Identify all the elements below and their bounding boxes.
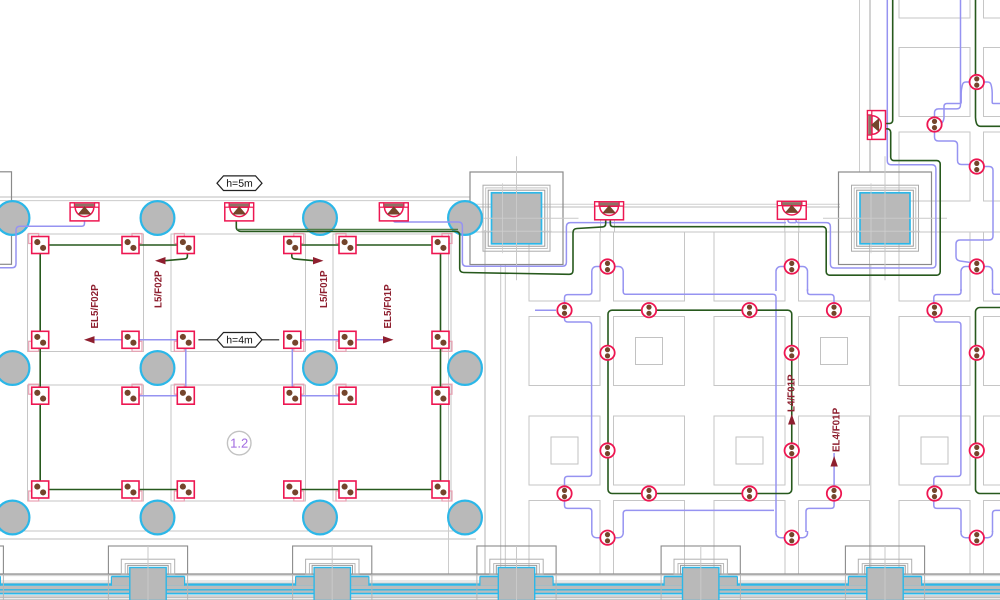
coffer recess square (934.5,450.5)	[921, 437, 948, 464]
round column (157.5,517.5)	[141, 501, 175, 535]
luminaire box row4 C-east	[442, 491, 452, 501]
facade sill line	[0, 575, 1000, 577]
facade sill line 2	[0, 582, 1000, 584]
downlight top strip 3	[970, 159, 984, 173]
coffer panel col4 row4	[799, 501, 870, 575]
luminaire box row2 B-west	[174, 341, 184, 351]
height tag h=4m	[217, 333, 262, 348]
luminaire box row1 B-west	[174, 234, 184, 244]
svg-text:L5/F01P: L5/F01P	[319, 270, 330, 308]
wire violet west serpentine bay A	[565, 289, 592, 532]
coffer panel col3 row2	[714, 317, 785, 386]
luminaire box row2 C-west	[336, 341, 346, 351]
wire green coffer loop circuit L4	[608, 310, 792, 493]
luminaire box row2 A-east	[132, 341, 142, 351]
corridor line	[448, 234, 450, 574]
coffer panel top strip col6 row1	[984, 0, 1000, 18]
downlight row C x791	[785, 346, 799, 360]
bottom wall line 2	[0, 538, 476, 540]
room outline A1	[28, 234, 144, 352]
wire violet leg exit right	[992, 101, 1000, 104]
wall line (right hall top)	[462, 206, 840, 208]
svg-text:L4/F01P: L4/F01P	[787, 374, 798, 412]
downlight row C x607	[600, 346, 614, 360]
height tag h=5m	[217, 176, 262, 191]
round column (465,517.5)	[448, 501, 482, 535]
round column (320,218)	[303, 201, 337, 235]
wire violet room row 3 links	[139, 395, 178, 397]
facade column	[477, 546, 556, 574]
coffer panel col1 row2	[529, 317, 600, 386]
right block ceiling boundary	[455, 231, 1000, 233]
wire green left hall row1	[40, 244, 186, 246]
luminaire box row3 C-east	[442, 384, 452, 394]
svg-text:EL5/F02P: EL5/F02P	[90, 284, 101, 329]
coffer panel col5 row2	[899, 317, 970, 386]
pillar C (right big column)	[839, 172, 932, 265]
wall luminaire F6 (rotated)	[868, 111, 886, 140]
coffer panel col6 row1	[984, 232, 1000, 301]
facade column	[845, 546, 924, 574]
wall luminaire F2	[225, 203, 254, 221]
downlight top strip 1	[970, 75, 984, 89]
luminaire box row3 A-east	[132, 384, 142, 394]
svg-text:L5/F02P: L5/F02P	[154, 270, 165, 308]
coffer panel top strip col5 row3	[899, 132, 970, 201]
wire violet EL5/F02P run	[95, 339, 123, 341]
top strip wall line 1	[859, 0, 861, 172]
luminaire box row3 C-west	[336, 384, 346, 394]
downlight row B x934	[927, 303, 941, 317]
wire green F2 to F4 around pillar B	[236, 220, 605, 274]
room outline C2	[333, 385, 451, 501]
luminaire box row4 A-east	[132, 491, 142, 501]
coffer panel col4 row2	[799, 317, 870, 386]
wire violet bay B east leg to downlight	[808, 289, 835, 315]
downlight row B x649	[642, 303, 656, 317]
coffer panel col2 row4	[614, 501, 685, 575]
downlight row C x976	[970, 346, 984, 360]
wall line upper (left hall)	[0, 196, 470, 198]
rib line across top wall band	[784, 206, 786, 232]
downlight row B x564	[557, 303, 571, 317]
wire violet row B stub left edge	[535, 309, 556, 311]
luminaire box row4 C-west	[336, 491, 346, 501]
downlight row F x976	[970, 531, 984, 545]
downlight row A x607	[600, 259, 614, 273]
coffer recess square (749.5,450.5)	[736, 437, 763, 464]
downlight top strip 2	[927, 117, 941, 131]
rib line across top wall band	[798, 206, 800, 232]
wall luminaire F3	[379, 203, 408, 221]
coffer panel col1 row1	[529, 232, 600, 301]
room outline C1	[333, 234, 451, 352]
wire green L5/F01P stub	[292, 254, 314, 261]
feeder arrow EL4/F01P	[830, 456, 837, 467]
downlight row E x649	[642, 486, 656, 500]
wall luminaire F4	[595, 202, 624, 220]
coffer panel col5 row4	[899, 501, 970, 575]
coffer panel top strip col6 row2	[984, 48, 1000, 117]
round column (465,368)	[448, 351, 482, 385]
feeder arrow L5/F01P	[313, 257, 324, 264]
facade column	[293, 546, 372, 574]
round column (12.5,368)	[0, 351, 29, 385]
wire violet bay C row F link east	[993, 510, 1000, 532]
top strip wall line 2	[869, 0, 871, 172]
downlight row D x607	[600, 443, 614, 457]
wire violet hook row F bay A	[592, 531, 623, 538]
downlight row D x976	[970, 443, 984, 457]
downlight row A x976	[970, 259, 984, 273]
coffer panel col6 row2	[984, 317, 1000, 386]
wall line lower (left hall)	[0, 200, 470, 202]
round column (320,368)	[303, 351, 337, 385]
wire violet top strip feed	[935, 0, 961, 117]
luminaire box row3 A-west	[29, 384, 39, 394]
downlight row E x564	[557, 486, 571, 500]
wire green left hall west riser	[39, 245, 41, 490]
rib line across top wall band	[600, 206, 602, 232]
luminaire box row2 C-east	[442, 341, 452, 351]
svg-text:h=4m: h=4m	[226, 334, 253, 346]
wire green parallel second conductor	[237, 228, 458, 230]
wire violet west serpentine bay C	[934, 289, 961, 532]
luminaire box row4 A-west	[29, 491, 39, 501]
downlight row E x749	[742, 486, 756, 500]
wire green bay C loop (partial, exits right)	[976, 308, 1000, 494]
coffer panel top strip col5 row2	[899, 48, 970, 117]
round column (465,218)	[448, 201, 482, 235]
wire green top strip east run	[976, 0, 1000, 126]
wire violet vertical link x292	[291, 348, 293, 387]
luminaire box row1 C-east	[442, 234, 452, 244]
pillar B (left big column)	[470, 172, 563, 265]
luminaire box row1 B-east	[294, 234, 304, 244]
svg-text:h=5m: h=5m	[226, 178, 253, 190]
downlight row E x834	[827, 486, 841, 500]
facade column	[661, 546, 740, 574]
facade cyan line 1	[0, 583, 1000, 585]
facade lower line	[0, 596, 1000, 598]
coffer panel col4 row3	[799, 416, 870, 485]
coffer panel col6 row3	[984, 416, 1000, 485]
coffer panel col3 row1	[714, 232, 785, 301]
wire violet bridge at fixture (977,82)	[961, 82, 992, 101]
coffer panel col3 row4	[714, 501, 785, 575]
luminaire box row1 A-west	[29, 234, 39, 244]
facade wall top line	[0, 573, 1000, 575]
coffer panel col2 row1	[614, 232, 685, 301]
wall luminaire F1	[70, 203, 99, 221]
corridor line	[870, 265, 872, 575]
wire violet link fixture (934,124) to (977,166)	[935, 132, 970, 165]
coffer panel top strip col6 row3	[984, 132, 1000, 201]
wire green L5/F02P stub	[165, 254, 187, 261]
coffer panel col1 row3	[529, 416, 600, 485]
downlight row B x749	[742, 303, 756, 317]
luminaire box row4 B-east	[294, 491, 304, 501]
corridor line	[504, 265, 506, 575]
leader line right of h=4m	[262, 339, 279, 341]
coffer panel col1 row4	[529, 501, 600, 575]
wire violet F5 stub left	[788, 218, 796, 223]
coffer recess square (564.5,450.5)	[551, 437, 578, 464]
svg-text:EL5/F01P: EL5/F01P	[383, 284, 394, 329]
room outline B2	[171, 385, 306, 501]
wire violet hook row F bay B	[776, 531, 808, 538]
feeder arrow L4/F01P	[788, 414, 795, 425]
pillar A (edge, partial)	[0, 172, 12, 264]
corridor line	[500, 265, 502, 575]
coffer panel col2 row3	[614, 416, 685, 485]
downlight row E x934	[927, 486, 941, 500]
downlight row F x791	[785, 531, 799, 545]
wire green F4 to F6 around pillar C	[610, 129, 940, 275]
wire violet EL4/F01P feeder rail	[806, 453, 834, 532]
wire violet bridge row A bay B	[776, 267, 808, 292]
facade line	[0, 580, 1000, 582]
svg-text:1.2: 1.2	[230, 436, 248, 451]
facade lower light line	[0, 595, 1000, 597]
wire green F6 stub up	[885, 0, 893, 124]
feeder arrow EL5/F01P	[383, 336, 394, 343]
wire violet row F interlink bay A-B	[623, 510, 774, 532]
coffer panel col5 row1	[899, 232, 970, 301]
wire violet bay A east link / bay B west rail	[623, 289, 776, 532]
luminaire box row1 A-east	[132, 234, 142, 244]
round column (157.5,218)	[141, 201, 175, 235]
coffer panel col4 row1	[799, 232, 870, 301]
luminaire box row4 B-west	[174, 491, 184, 501]
coffer panel top strip col5 row1	[899, 0, 970, 18]
round column (12.5,517.5)	[0, 501, 29, 535]
wire violet bridge row A bay A	[592, 267, 623, 292]
downlight row B x834	[827, 303, 841, 317]
downlight row D x791	[785, 443, 799, 457]
facade bottom line	[0, 598, 1000, 600]
coffer panel col5 row3	[899, 416, 970, 485]
wire violet from wall fixture F1 to left edge	[0, 220, 85, 267]
coffer panel col6 row4	[984, 501, 1000, 575]
luminaire box row2 A-west	[29, 341, 39, 351]
wire violet bridge row A bay C	[961, 267, 993, 292]
wire violet leg to fixture (934,124)	[941, 101, 961, 125]
facade cyan line 3	[0, 593, 1000, 595]
facade gray band	[0, 586, 1000, 594]
coffer panel col3 row3	[714, 416, 785, 485]
wire violet link fixture (977,166) down to row A	[956, 167, 993, 263]
facade column	[108, 546, 187, 574]
wall luminaire F5	[777, 201, 806, 219]
bottom wall line 1	[0, 530, 476, 532]
downlight row A x791	[785, 259, 799, 273]
leader line left of h=4m	[198, 339, 217, 341]
round column (12.5,218)	[0, 201, 29, 235]
wall line (right hall top, upper)	[462, 203, 840, 205]
luminaire box row1 C-west	[336, 234, 346, 244]
luminaire box row3 B-east	[294, 384, 304, 394]
room outline B1	[171, 234, 306, 352]
wire violet hook row F bay C	[961, 531, 993, 538]
facade column	[0, 546, 3, 574]
luminaire box row2 B-east	[294, 341, 304, 351]
wire violet F5 around pillar C and up	[796, 0, 936, 268]
wire green left hall east riser	[440, 245, 442, 490]
coffer panel col2 row2	[614, 317, 685, 386]
feeder arrow EL5/F02P	[84, 336, 95, 343]
grid bubble 1.2	[227, 431, 251, 455]
wire violet bay C east leg	[993, 289, 1000, 294]
facade cyan line 2	[0, 589, 1000, 591]
feeder arrow L5/F02P	[155, 257, 166, 264]
svg-text:EL4/F01P: EL4/F01P	[832, 407, 843, 452]
coffer recess square (834,351)	[821, 338, 848, 365]
downlight row F x607	[600, 531, 614, 545]
wire violet F3 around pillar B	[394, 219, 786, 266]
room outline A2	[28, 385, 144, 501]
wire green left hall row4	[40, 489, 186, 491]
luminaire box row3 B-west	[174, 384, 184, 394]
corridor line	[484, 230, 486, 574]
wire violet vertical link x186	[185, 348, 187, 387]
rib line across top wall band	[614, 206, 616, 232]
round column (320,517.5)	[303, 501, 337, 535]
coffer recess square (649,351)	[636, 338, 663, 365]
round column (157.5,368)	[141, 351, 175, 385]
